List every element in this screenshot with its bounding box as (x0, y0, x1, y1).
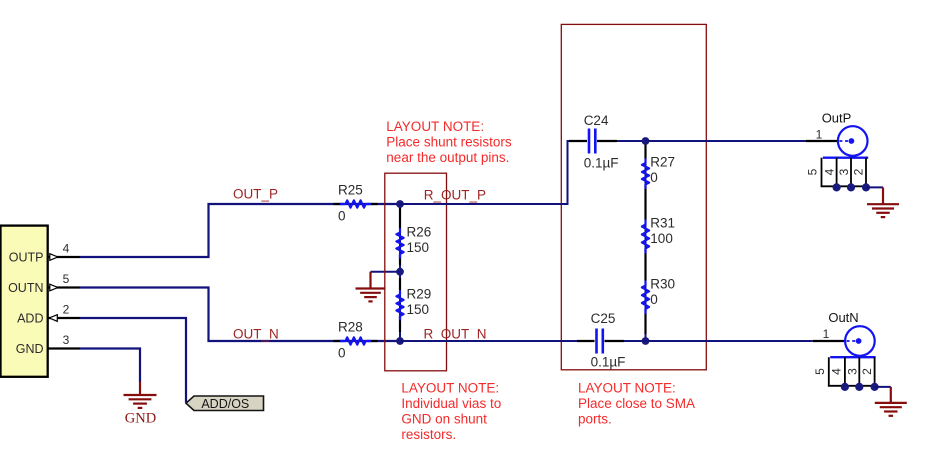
wire shunt chain vertical (399, 204, 401, 341)
wire R_OUT_P to C24 jog (400, 141, 578, 204)
ground symbol GND (IC pin 3) (124, 382, 157, 408)
wire OUT_N to C25 (400, 340, 577, 342)
svg-text:3: 3 (63, 333, 70, 347)
svg-text:R31: R31 (650, 216, 675, 231)
svg-text:1: 1 (823, 327, 830, 341)
wire junction to OutN (646, 340, 813, 342)
wire C24 to junction (617, 140, 646, 142)
svg-text:R27: R27 (650, 155, 675, 170)
svg-text:OUT_N: OUT_N (233, 326, 279, 341)
svg-text:C24: C24 (584, 113, 609, 128)
wire gnd stub (371, 271, 401, 273)
svg-text:LAYOUT NOTE:: LAYOUT NOTE: (386, 119, 484, 134)
pin 1 stub OutN (813, 340, 846, 342)
svg-text:OutP: OutP (822, 111, 852, 126)
resistor R25 leads (334, 203, 345, 205)
wire ADD pin to ADD/OS flag (80, 318, 186, 403)
svg-text:0: 0 (650, 292, 658, 307)
svg-text:ADD/OS: ADD/OS (201, 397, 249, 411)
SMA OutN coax circle (845, 326, 875, 356)
note box around output network (561, 24, 706, 369)
ground symbol (shunt resistors) (356, 272, 386, 302)
svg-text:3: 3 (837, 168, 851, 175)
svg-text:GND on shunt: GND on shunt (401, 412, 487, 427)
pin arrow OUTP (output) (50, 254, 58, 261)
capacitor C25 (595, 329, 598, 354)
svg-text:R25: R25 (338, 183, 363, 198)
pin 5 (OUTN) stub (49, 286, 81, 288)
capacitor C24 (588, 129, 591, 154)
svg-text:100: 100 (650, 231, 673, 246)
junction dots OutP shield (833, 183, 841, 191)
svg-text:0: 0 (338, 209, 346, 224)
resistor R27 (642, 159, 649, 189)
wire OutN shield to ground (875, 386, 891, 388)
svg-text:150: 150 (407, 302, 430, 317)
svg-text:OUTN: OUTN (8, 281, 43, 295)
svg-text:GND: GND (125, 410, 156, 426)
svg-text:R29: R29 (407, 287, 432, 302)
svg-text:5: 5 (63, 272, 70, 286)
wire OUTN pin to OUT_N row (80, 288, 400, 342)
wire series chain vertical (645, 141, 647, 341)
layout note 2 (401, 381, 501, 443)
svg-text:ports.: ports. (578, 412, 612, 427)
svg-text:R_OUT_N: R_OUT_N (424, 326, 487, 341)
resistor R30 (642, 281, 649, 314)
wire junction to OutP (646, 140, 807, 142)
lead segments series chain (black) (644, 144, 646, 159)
svg-text:LAYOUT NOTE:: LAYOUT NOTE: (578, 381, 676, 396)
svg-text:OUTP: OUTP (9, 250, 44, 264)
svg-text:2: 2 (63, 303, 70, 317)
svg-text:150: 150 (407, 240, 430, 255)
resistor R25 (340, 200, 371, 207)
junction: C24 / R27 / OutP (642, 137, 650, 145)
lead segments shunt chain (black) (399, 206, 401, 228)
svg-text:R_OUT_P: R_OUT_P (424, 188, 486, 203)
svg-text:C25: C25 (591, 311, 616, 326)
resistor R28 leads (334, 340, 345, 342)
svg-text:4: 4 (830, 368, 844, 375)
layout note 1 (386, 119, 512, 165)
IC block (partial, left edge) (1, 226, 48, 377)
wire OUTP pin to OUT_P row (80, 204, 400, 257)
junction dots OutN shield (841, 383, 849, 391)
svg-text:R30: R30 (650, 277, 675, 292)
svg-text:GND: GND (16, 342, 44, 356)
pin 4 (OUTP) stub (49, 256, 81, 258)
SMA OutN shield body (828, 357, 876, 386)
pin 2 (ADD) stub (49, 317, 81, 319)
capacitor C25 leads (577, 340, 595, 342)
pin 3 (GND) stub (49, 347, 81, 349)
svg-text:near the output pins.: near the output pins. (386, 150, 509, 165)
svg-text:R26: R26 (407, 225, 432, 240)
junction: OUT_P / R26 (396, 200, 404, 208)
svg-text:4: 4 (63, 242, 70, 256)
wire GND pin down to ground (80, 349, 140, 383)
note box around shunt resistors (385, 173, 447, 371)
svg-text:0.1µF: 0.1µF (591, 355, 626, 370)
svg-text:0: 0 (650, 170, 658, 185)
capacitor C24 leads (569, 140, 587, 142)
pin 1 stub OutP (806, 140, 838, 142)
svg-text:Place close to SMA: Place close to SMA (578, 396, 695, 411)
svg-text:0.1µF: 0.1µF (584, 156, 619, 171)
junction: R26 / R29 / gnd stub (396, 268, 404, 276)
SMA OutP coax circle (838, 126, 868, 156)
off-page connector ADD/OS (186, 396, 264, 411)
resistor R31 (642, 220, 649, 254)
wire C25 to junction (624, 340, 646, 342)
svg-text:OutN: OutN (828, 310, 858, 325)
svg-text:1: 1 (816, 128, 823, 142)
svg-text:0: 0 (338, 346, 346, 361)
svg-text:ADD: ADD (17, 311, 43, 325)
svg-text:2: 2 (860, 368, 874, 375)
svg-text:LAYOUT NOTE:: LAYOUT NOTE: (401, 381, 499, 396)
svg-text:5: 5 (806, 168, 820, 175)
svg-text:Individual vias to: Individual vias to (401, 396, 501, 411)
wire OutP shield to ground (866, 186, 883, 188)
layout note 3 (578, 381, 695, 427)
svg-text:4: 4 (822, 168, 836, 175)
SMA OutP shield body (821, 158, 869, 187)
svg-text:2: 2 (852, 168, 866, 175)
svg-text:R28: R28 (338, 320, 363, 335)
svg-text:Place shunt resistors: Place shunt resistors (386, 134, 512, 149)
pin arrow ADD (input) (49, 315, 57, 322)
pin arrow OUTN (output) (50, 284, 58, 291)
resistor R29 (396, 290, 403, 320)
junction: OUT_N / R29 (396, 337, 404, 345)
svg-text:5: 5 (813, 368, 827, 375)
junction: C25 / R30 / OutN (642, 337, 650, 345)
ground symbol (OutP) (867, 187, 899, 217)
ground symbol (OutN) (875, 387, 907, 416)
resistor R28 (340, 337, 371, 344)
resistor R26 (396, 228, 403, 258)
svg-text:3: 3 (845, 368, 859, 375)
svg-text:resistors.: resistors. (401, 427, 456, 442)
svg-text:OUT_P: OUT_P (233, 187, 278, 202)
